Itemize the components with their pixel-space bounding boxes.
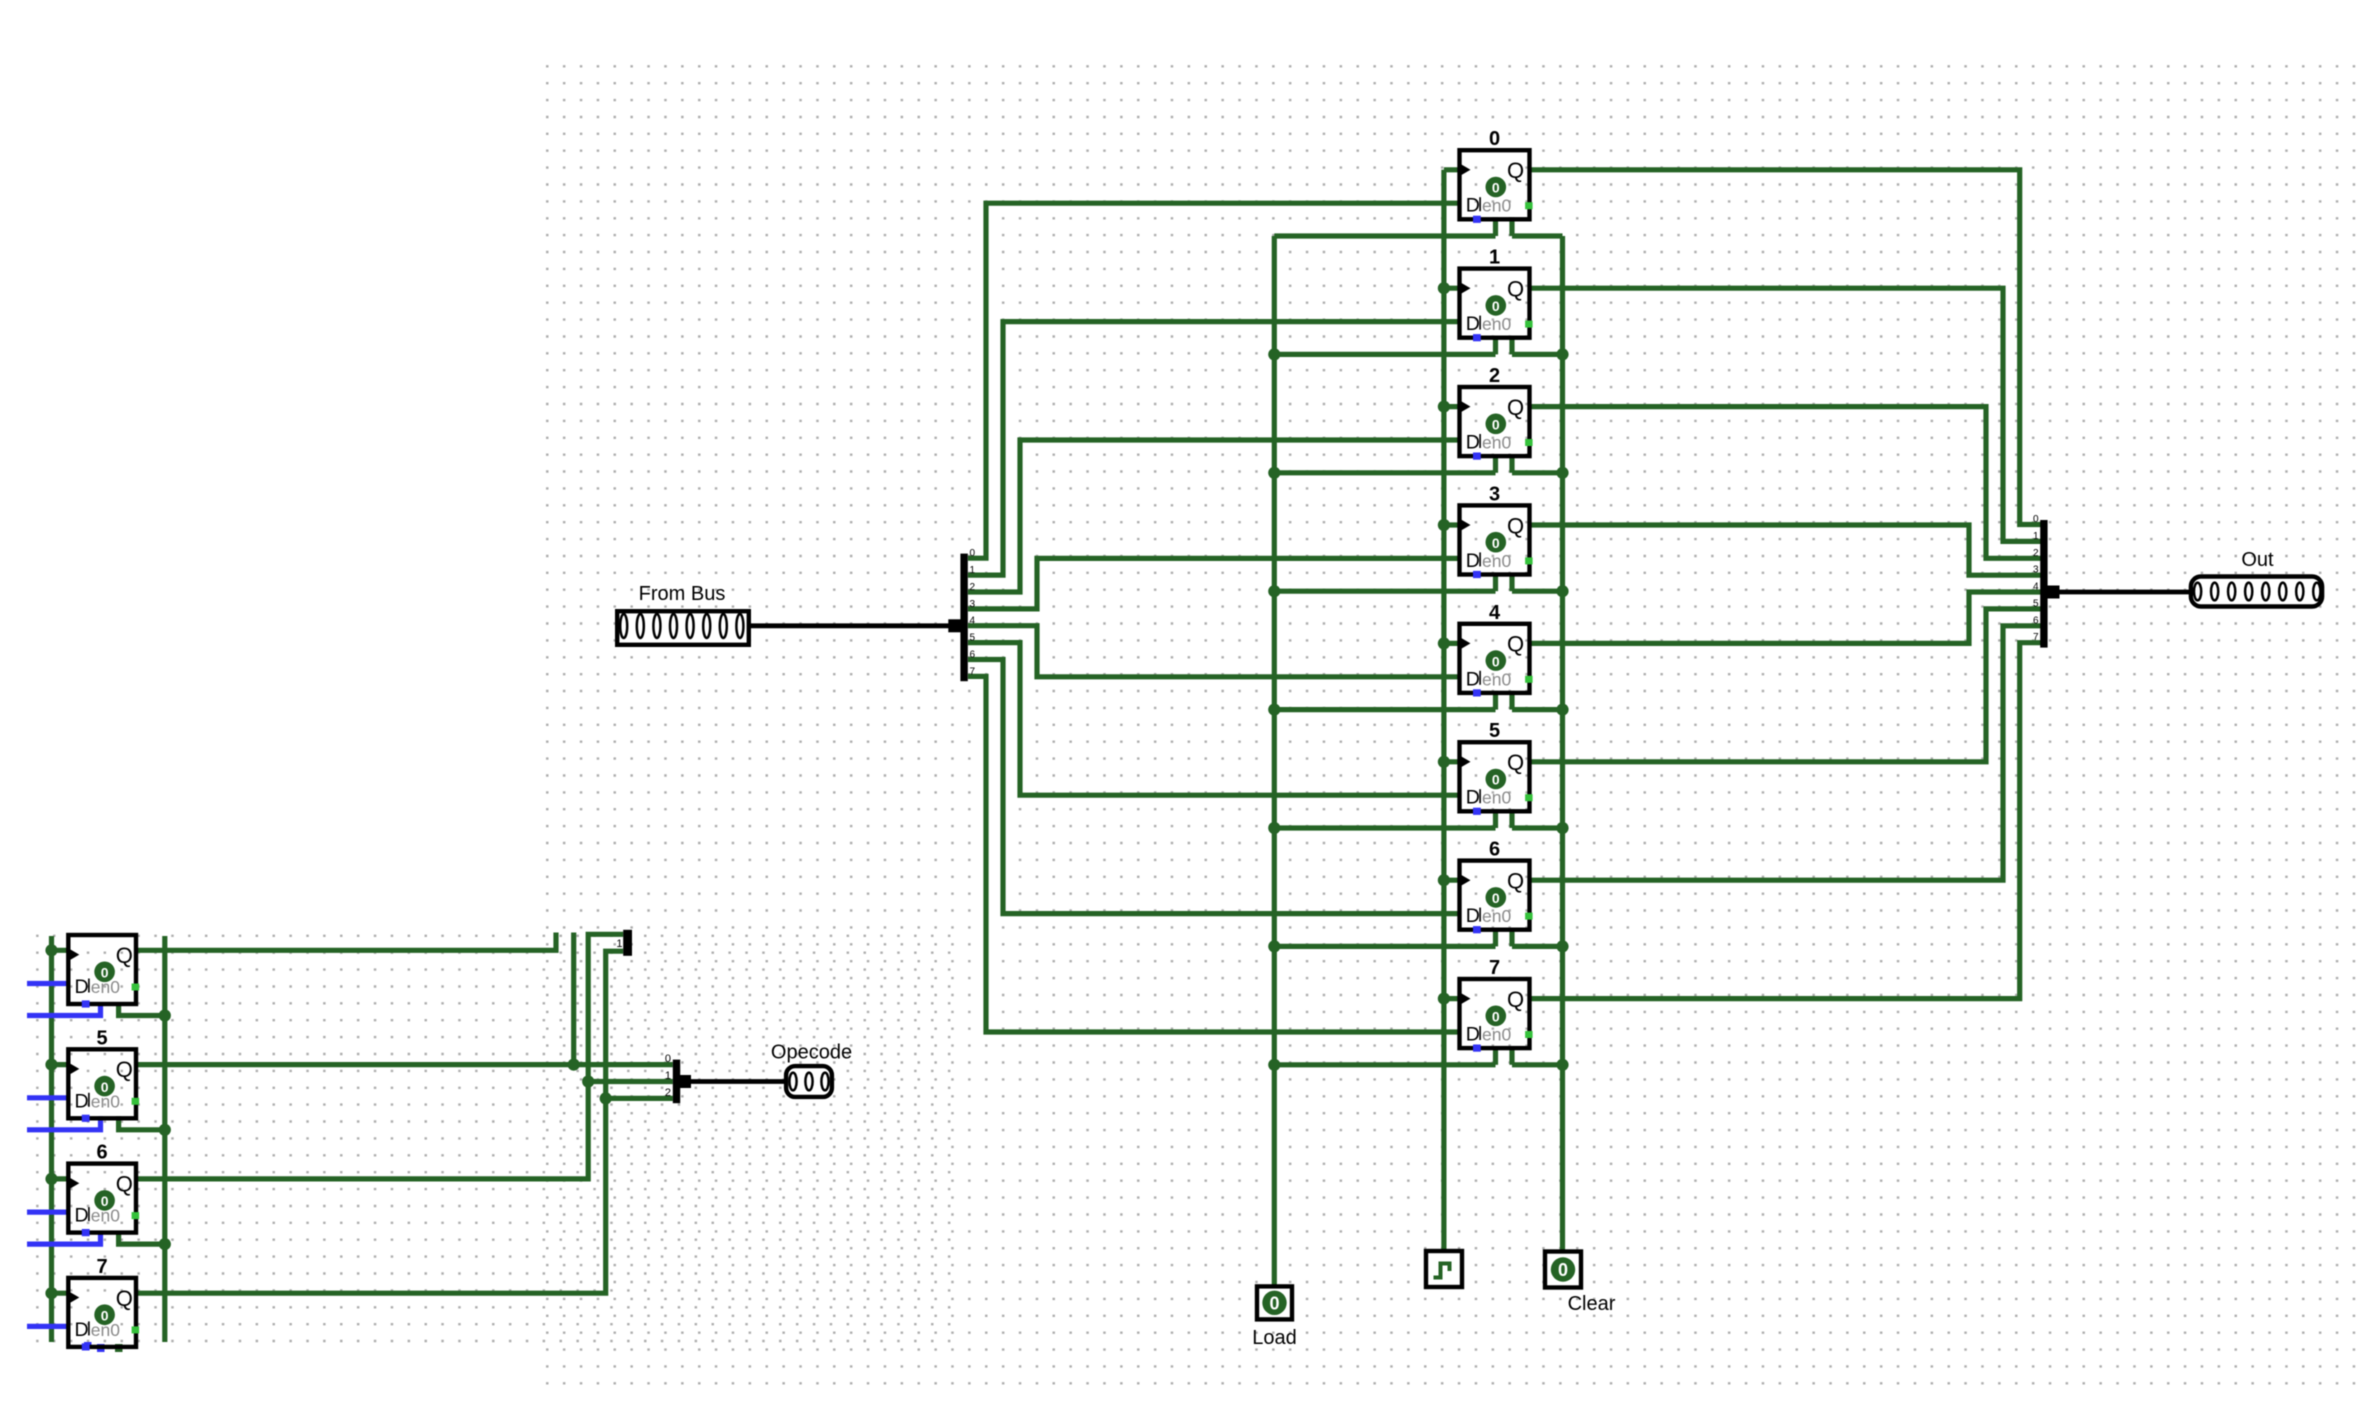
D flip-flop 0 (register bit 0) (1460, 128, 1533, 223)
wire clock trunk vertical (instruction register) (49, 936, 54, 1342)
input pin Clear (button, value 0) (1545, 1252, 1616, 1316)
junction clock trunk IR FF5 (45, 1059, 57, 1071)
input pin Load (button, value 0) (1252, 1286, 1297, 1349)
svg-text:0: 0 (665, 1053, 671, 1065)
svg-text:Q: Q (116, 943, 133, 968)
svg-text:en0: en0 (1482, 551, 1511, 571)
wire enable segment left FF5 (1274, 825, 1495, 830)
wire D input (floating, blue) IR FF6 (27, 1209, 70, 1214)
svg-text:0: 0 (1492, 180, 1500, 196)
wire clock stub FF3 (1444, 522, 1462, 527)
svg-text:2: 2 (1489, 365, 1500, 387)
wire clear stub below FF4 (right pin) (1509, 691, 1514, 710)
wire Q output IR FF7 via riser to mini splitter bottom leg (136, 951, 623, 1293)
D flip-flop 6 (register bit 6) (1460, 839, 1533, 934)
svg-text:5: 5 (96, 1027, 107, 1049)
wire Q output FF2 to output splitter bit 2 (1528, 407, 2041, 559)
wire clock stub IR FF7 (52, 1291, 71, 1296)
wire clear segment right FF4 (1512, 707, 1563, 712)
svg-text:D: D (75, 1205, 89, 1227)
svg-text:0: 0 (1492, 535, 1500, 551)
junction clock trunk FF7 (1438, 993, 1450, 1005)
svg-text:D: D (75, 1319, 89, 1341)
junction clear trunk FF1 (1556, 348, 1568, 360)
wire clear segment right FF6 (1512, 944, 1563, 949)
svg-text:Q: Q (1507, 750, 1524, 775)
svg-text:0: 0 (970, 548, 976, 559)
junction clock trunk FF3 (1438, 519, 1450, 531)
wire Q output FF5 to output splitter bit 5 (1528, 609, 2041, 762)
wire clock stub IR FF4 (52, 948, 71, 953)
wire Q output FF3 to output splitter bit 3 (1528, 525, 2041, 575)
wire clear segment right FF1 (1512, 352, 1563, 357)
wire clock stub FF0 (1444, 167, 1462, 172)
svg-text:D: D (1466, 550, 1480, 572)
wire data bit 6 from splitter to FF6 D input (968, 660, 1462, 914)
svg-text:7: 7 (1489, 957, 1500, 979)
wire enable segment left FF2 (1274, 470, 1495, 475)
wire clear stub below FF0 (right pin) (1509, 217, 1514, 236)
wire enable stub below FF0 (left pin) (1493, 217, 1498, 236)
wire data bit 1 from splitter to FF1 D input (968, 322, 1462, 575)
svg-text:D: D (1466, 195, 1480, 217)
junction clear trunk FF4 (1556, 704, 1568, 716)
junction clear trunk FF3 (1556, 585, 1568, 597)
splitter output (8-bit combiner) (2040, 520, 2059, 648)
junction load trunk FF3 (1268, 585, 1280, 597)
wire stub green below IR FF7 (cut) (115, 1344, 123, 1352)
svg-text:en0: en0 (1482, 196, 1511, 216)
svg-text:en0: en0 (1482, 1025, 1511, 1045)
svg-text:4: 4 (2033, 582, 2039, 593)
splitter input (8-bit fanout) (948, 554, 968, 682)
junction clock trunk FF1 (1438, 282, 1450, 294)
svg-text:Q: Q (1507, 869, 1524, 894)
D flip-flop 6 (instruction register) (68, 1142, 139, 1237)
wire output bus splitter to Out pin (2057, 590, 2190, 595)
wire clear stub below FF6 (right pin) (1509, 928, 1514, 947)
svg-text:0: 0 (1492, 890, 1500, 906)
junction load trunk FF6 (1268, 940, 1280, 952)
splitter mini (2-bit, unconnected spine) (616, 930, 632, 956)
svg-text:1: 1 (616, 938, 622, 950)
svg-text:6: 6 (2033, 615, 2039, 626)
wire clear segment right FF2 (1512, 470, 1563, 475)
svg-text:Q: Q (1507, 158, 1524, 183)
junction clear trunk FF5 (1556, 822, 1568, 834)
svg-text:2: 2 (2033, 548, 2039, 559)
wire enable segment left FF0 (1274, 233, 1495, 238)
wire lower blue net IR FF5 (27, 1116, 101, 1130)
D flip-flop 5 (instruction register) (68, 1027, 139, 1122)
wire clear stub below FF1 (right pin) (1509, 336, 1514, 355)
svg-text:en0: en0 (1482, 669, 1511, 689)
D flip-flop 1 (register bit 1) (1460, 247, 1533, 342)
wire right trunk vertical (instruction register) (162, 936, 167, 1342)
svg-text:D: D (1466, 787, 1480, 809)
svg-text:4: 4 (970, 616, 976, 627)
wire Q output IR FF4 dead-end stub (136, 933, 556, 951)
wire clock stub FF2 (1444, 404, 1462, 409)
junction clock trunk IR FF4 (45, 944, 57, 956)
wire enable stub below FF7 (left pin) (1493, 1046, 1498, 1065)
svg-text:3: 3 (2033, 565, 2039, 576)
svg-text:1: 1 (665, 1070, 671, 1082)
svg-text:en0: en0 (1482, 433, 1511, 453)
svg-text:6: 6 (970, 650, 976, 661)
svg-text:Out: Out (2241, 549, 2274, 571)
junction right trunk IR FF6 (159, 1238, 171, 1250)
wire clock stub IR FF6 (52, 1176, 71, 1181)
wire data bit 4 from splitter to FF4 D input (968, 626, 1462, 677)
wire clock stub FF6 (1444, 878, 1462, 883)
wire enable stub below FF4 (left pin) (1493, 691, 1498, 710)
svg-text:en0: en0 (91, 977, 120, 997)
wire enable segment left FF3 (1274, 589, 1495, 594)
wire clock stub FF1 (1444, 286, 1462, 291)
D flip-flop 3 (register bit 3) (1460, 483, 1533, 578)
junction right trunk IR FF5 (159, 1124, 171, 1136)
svg-text:7: 7 (96, 1256, 107, 1278)
wire enable stub right IR FF5 (119, 1116, 165, 1130)
svg-text:0: 0 (1489, 128, 1500, 150)
svg-text:Q: Q (1507, 395, 1524, 420)
wire clear segment right FF0 (1512, 233, 1563, 238)
wire lower blue net IR FF4 (27, 1002, 101, 1016)
wire input bus From Bus to splitter (751, 623, 951, 628)
D flip-flop 7 (register bit 7) (1460, 957, 1533, 1052)
wire lower blue net IR FF6 (27, 1231, 101, 1245)
svg-text:1: 1 (1489, 247, 1500, 269)
D flip-flop 7 (instruction register) (68, 1256, 139, 1351)
junction opcode bit2 tap (600, 1092, 612, 1104)
junction clock trunk FF4 (1438, 637, 1450, 649)
wire data bit 2 from splitter to FF2 D input (968, 440, 1462, 592)
wire clear segment right FF7 (1512, 1062, 1563, 1067)
svg-text:Opecode: Opecode (771, 1042, 852, 1064)
splitter opcode (3-bit combiner) (665, 1053, 691, 1103)
wire clock stub FF7 (1444, 996, 1462, 1001)
svg-text:3: 3 (970, 599, 976, 610)
svg-text:D: D (1466, 668, 1480, 690)
wire enable stub below FF6 (left pin) (1493, 928, 1498, 947)
svg-text:7: 7 (970, 666, 976, 677)
D flip-flop IR bit 4 (instruction register) (68, 935, 139, 1008)
svg-text:4: 4 (1489, 602, 1501, 624)
wire clock stub FF5 (1444, 759, 1462, 764)
wire Q output FF4 to output splitter bit 4 (1528, 592, 2041, 643)
svg-text:D: D (1466, 905, 1480, 927)
svg-text:Q: Q (116, 1172, 133, 1197)
svg-text:en0: en0 (1482, 788, 1511, 808)
svg-text:Q: Q (116, 1286, 133, 1311)
wire clock stub IR FF5 (52, 1062, 71, 1067)
wire data bit 0 from splitter to FF0 D input (968, 203, 1462, 558)
svg-text:0: 0 (1558, 1260, 1568, 1280)
wire clock stub FF4 (1444, 641, 1462, 646)
wire clear trunk vertical (1560, 236, 1565, 1252)
junction opcode bit0 tap (568, 1059, 580, 1071)
svg-text:D: D (1466, 1024, 1480, 1046)
wire clear stub below FF7 (right pin) (1509, 1046, 1514, 1065)
svg-text:6: 6 (1489, 839, 1500, 861)
wire data bit 7 from splitter to FF7 D input (968, 676, 1462, 1032)
svg-text:0: 0 (1492, 417, 1500, 433)
junction opcode bit1 tap (582, 1075, 594, 1087)
wire clear segment right FF3 (1512, 589, 1563, 594)
wire Q output IR FF5 to opcode splitter bit0 (136, 1062, 673, 1067)
wire Q output FF7 to output splitter bit 7 (1528, 643, 2041, 999)
svg-text:5: 5 (2033, 598, 2039, 609)
svg-text:5: 5 (970, 633, 976, 644)
wire enable stub below FF2 (left pin) (1493, 454, 1498, 473)
wire opcode bus to Opecode pin (690, 1079, 785, 1084)
wire stub blue2 below IR FF7 (cut) (97, 1344, 105, 1352)
wire clear stub below FF3 (right pin) (1509, 573, 1514, 592)
wire Q output FF1 to output splitter bit 1 (1528, 288, 2041, 541)
D flip-flop 5 (register bit 5) (1460, 720, 1533, 815)
svg-text:D: D (1466, 432, 1480, 454)
wire enable stub right IR FF6 (119, 1231, 165, 1245)
svg-text:From Bus: From Bus (639, 583, 726, 605)
wire stub blue below IR FF7 (cut) (84, 1342, 92, 1348)
junction load trunk FF4 (1268, 704, 1280, 716)
wire enable segment left FF1 (1274, 352, 1495, 357)
junction load trunk FF1 (1268, 348, 1280, 360)
wire clear stub below FF5 (right pin) (1509, 809, 1514, 828)
svg-text:en0: en0 (91, 1091, 120, 1111)
wire opcode bit2 segment (606, 1096, 673, 1101)
svg-text:en0: en0 (91, 1206, 120, 1226)
D flip-flop 2 (register bit 2) (1460, 365, 1533, 460)
wire enable stub below FF5 (left pin) (1493, 809, 1498, 828)
wire enable segment left FF4 (1274, 707, 1495, 712)
wire D input (floating, blue) IR FF7 (27, 1324, 70, 1329)
svg-text:D: D (75, 1090, 89, 1112)
wire opcode bit1 segment (588, 1079, 673, 1084)
D flip-flop 4 (register bit 4) (1460, 602, 1533, 697)
svg-text:Load: Load (1252, 1327, 1297, 1349)
junction load trunk FF7 (1268, 1059, 1280, 1071)
svg-text:0: 0 (1269, 1293, 1279, 1313)
output pin Opecode (3-bit, value 000) (771, 1042, 852, 1097)
junction load trunk FF2 (1268, 467, 1280, 479)
wire enable stub right IR FF4 (119, 1002, 165, 1016)
svg-text:en0: en0 (91, 1320, 120, 1340)
svg-text:5: 5 (1489, 720, 1500, 742)
svg-text:D: D (75, 976, 89, 998)
junction clock trunk IR FF7 (45, 1287, 57, 1299)
svg-text:Clear: Clear (1568, 1293, 1616, 1315)
svg-text:1: 1 (2033, 531, 2039, 542)
wire data bit 3 from splitter to FF3 D input (968, 558, 1462, 609)
svg-text:1: 1 (970, 565, 976, 576)
wire D input (floating, blue) IR FF5 (27, 1095, 70, 1100)
junction clear trunk FF7 (1556, 1059, 1568, 1071)
junction clock trunk FF2 (1438, 401, 1450, 413)
wire load/enable trunk vertical (1272, 236, 1277, 1286)
junction right trunk IR FF4 (159, 1009, 171, 1021)
wire clear segment right FF5 (1512, 825, 1563, 830)
svg-text:0: 0 (1492, 298, 1500, 314)
svg-text:6: 6 (96, 1142, 107, 1164)
wire enable stub below FF1 (left pin) (1493, 336, 1498, 355)
svg-text:0: 0 (1492, 1009, 1500, 1025)
svg-text:0: 0 (1492, 772, 1500, 788)
svg-text:3: 3 (1489, 483, 1500, 505)
svg-text:2: 2 (665, 1087, 671, 1099)
svg-text:D: D (1466, 313, 1480, 335)
wire D input (floating, blue) IR FF4 (27, 981, 70, 986)
svg-text:0: 0 (1492, 653, 1500, 669)
svg-text:en0: en0 (1482, 314, 1511, 334)
junction clock trunk FF6 (1438, 874, 1450, 886)
junction clock trunk IR FF6 (45, 1173, 57, 1185)
wire Q output IR FF6 via riser to mini splitter top leg (136, 934, 623, 1179)
svg-text:2: 2 (970, 582, 976, 593)
svg-text:Q: Q (116, 1057, 133, 1082)
input pin clock (1426, 1251, 1462, 1287)
wire stub vertical dead-end above opcode bit0 (571, 933, 576, 1065)
output pin Out (8-bit, value 00000000) (2191, 549, 2322, 607)
junction clock trunk FF5 (1438, 756, 1450, 768)
wire enable segment left FF7 (1274, 1062, 1495, 1067)
input pin From Bus (8-bit, value 00000000) (617, 583, 749, 645)
wire clock trunk vertical (1441, 170, 1446, 1251)
wire data bit 5 from splitter to FF5 D input (968, 643, 1462, 796)
junction clear trunk FF2 (1556, 467, 1568, 479)
svg-text:Q: Q (1507, 632, 1524, 657)
wire clear stub below FF2 (right pin) (1509, 454, 1514, 473)
svg-text:Q: Q (1507, 987, 1524, 1012)
svg-text:Q: Q (1507, 513, 1524, 538)
svg-text:0: 0 (2033, 514, 2039, 525)
wire Q output FF6 to output splitter bit 6 (1528, 626, 2041, 880)
svg-text:7: 7 (2033, 632, 2039, 643)
svg-text:en0: en0 (1482, 906, 1511, 926)
junction clear trunk FF6 (1556, 940, 1568, 952)
wire enable segment left FF6 (1274, 944, 1495, 949)
wire Q output FF0 to output splitter bit 0 (1528, 170, 2041, 525)
junction load trunk FF5 (1268, 822, 1280, 834)
svg-text:Q: Q (1507, 277, 1524, 302)
wire enable stub below FF3 (left pin) (1493, 573, 1498, 592)
